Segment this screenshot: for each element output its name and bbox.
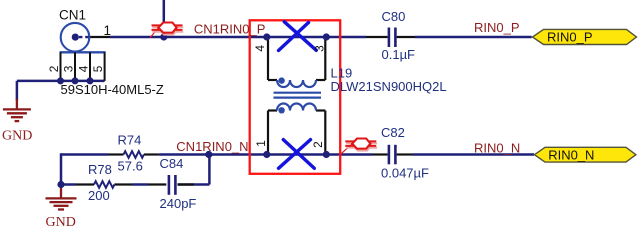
svg-text:1: 1	[254, 140, 268, 147]
svg-text:GND: GND	[46, 215, 76, 230]
svg-text:4: 4	[76, 65, 90, 72]
svg-text:2: 2	[47, 66, 61, 73]
svg-text:RIN0_P: RIN0_P	[547, 30, 593, 45]
svg-text:RIN0_P: RIN0_P	[474, 20, 520, 35]
svg-text:C82: C82	[381, 125, 405, 140]
svg-text:R74: R74	[118, 133, 142, 148]
svg-text:R78: R78	[88, 162, 112, 177]
svg-text:RIN0_N: RIN0_N	[548, 148, 594, 163]
svg-text:C84: C84	[160, 156, 184, 171]
svg-text:2: 2	[311, 141, 325, 148]
svg-text:1: 1	[104, 23, 112, 38]
svg-text:GND: GND	[2, 128, 32, 143]
svg-text:3: 3	[312, 45, 326, 52]
svg-text:200: 200	[88, 188, 110, 203]
svg-text:57.6: 57.6	[118, 159, 143, 174]
svg-text:DLW21SN900HQ2L: DLW21SN900HQ2L	[331, 79, 447, 94]
svg-text:0.1µF: 0.1µF	[382, 47, 416, 62]
svg-text:CN1RIN0_N: CN1RIN0_N	[176, 139, 248, 154]
svg-text:3: 3	[61, 65, 75, 72]
svg-text:CN1: CN1	[59, 8, 86, 23]
svg-text:59S10H-40ML5-Z: 59S10H-40ML5-Z	[61, 82, 164, 97]
svg-text:C80: C80	[382, 9, 406, 24]
svg-text:4: 4	[253, 45, 267, 52]
svg-text:0.047µF: 0.047µF	[381, 166, 429, 181]
svg-text:5: 5	[91, 65, 105, 72]
svg-text:CN1RIN0_P: CN1RIN0_P	[194, 22, 266, 37]
svg-text:240pF: 240pF	[160, 196, 197, 211]
svg-text:RIN0_N: RIN0_N	[474, 140, 520, 155]
